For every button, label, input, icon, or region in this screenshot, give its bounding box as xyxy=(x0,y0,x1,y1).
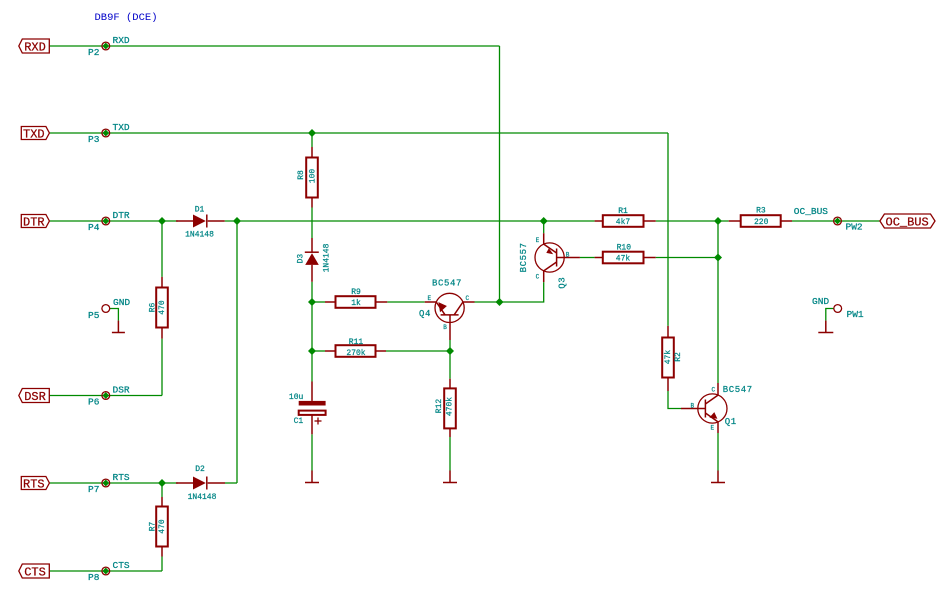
ground R12 xyxy=(443,471,457,483)
wire R10 right to collector riser xyxy=(656,257,718,259)
resistor R7 xyxy=(149,497,168,557)
svg-text:P6: P6 xyxy=(88,397,100,408)
port RXD xyxy=(19,39,50,53)
svg-text:47k: 47k xyxy=(664,350,673,365)
svg-text:47k: 47k xyxy=(616,255,631,264)
svg-text:PW2: PW2 xyxy=(846,222,863,233)
svg-text:B: B xyxy=(566,252,570,259)
svg-text:BC557: BC557 xyxy=(519,242,529,272)
port CTS xyxy=(19,564,50,578)
svg-text:270k: 270k xyxy=(346,349,365,358)
junction R9 row/D3 xyxy=(308,298,316,306)
svg-text:10u: 10u xyxy=(289,393,304,402)
transistor Q4 BC547 xyxy=(419,279,475,341)
junction RTS/R7 xyxy=(158,479,166,487)
svg-text:CTS: CTS xyxy=(113,560,130,571)
svg-text:GND: GND xyxy=(113,297,130,308)
svg-text:D1: D1 xyxy=(195,206,205,215)
svg-text:470: 470 xyxy=(158,300,167,315)
wire CTS horizontal xyxy=(49,570,162,572)
capacitor C1 xyxy=(289,382,326,435)
wire R3 to OC_BUS port xyxy=(792,220,880,222)
port DSR xyxy=(19,389,50,403)
svg-text:220: 220 xyxy=(754,218,769,227)
svg-text:E: E xyxy=(711,425,715,432)
wire R6 top to DTR xyxy=(161,221,163,277)
svg-text:DSR: DSR xyxy=(24,390,46,404)
junction DTR/Q3 emitter xyxy=(540,217,548,225)
svg-text:P4: P4 xyxy=(88,222,100,233)
wire DTR junction down to riser top xyxy=(717,221,719,258)
svg-text:C: C xyxy=(712,386,716,393)
wire R7 bottom to CTS corner xyxy=(161,557,163,572)
svg-text:470k: 470k xyxy=(445,397,454,416)
wire R8 top junction stub xyxy=(311,133,313,147)
junction DTR/R6 xyxy=(158,217,166,225)
pin P5 xyxy=(102,305,110,313)
svg-text:R10: R10 xyxy=(617,243,632,252)
pin P4 xyxy=(102,217,110,225)
pin P6 xyxy=(102,392,110,400)
svg-text:R9: R9 xyxy=(351,288,361,297)
svg-text:BC547: BC547 xyxy=(432,279,462,289)
svg-text:1N4148: 1N4148 xyxy=(322,243,331,272)
svg-text:R1: R1 xyxy=(618,207,628,216)
pin P7 xyxy=(102,479,110,487)
svg-text:D3: D3 xyxy=(296,254,305,264)
wire Q1 emitter to GND xyxy=(717,433,719,471)
diode D1 xyxy=(176,206,225,240)
wire R8 bottom to D3 xyxy=(311,208,313,239)
svg-text:1k: 1k xyxy=(351,299,361,308)
svg-text:E: E xyxy=(536,237,540,244)
ground P5 xyxy=(112,321,125,333)
svg-text:RTS: RTS xyxy=(23,477,45,491)
svg-text:P5: P5 xyxy=(88,310,100,321)
wire R11 right to Q4 base junction xyxy=(386,350,450,352)
wire R11 left stub xyxy=(312,350,325,352)
svg-text:P3: P3 xyxy=(88,134,100,145)
wire DSR vertical to R6 xyxy=(161,339,163,396)
svg-text:D2: D2 xyxy=(195,465,205,474)
resistor R11 xyxy=(325,338,386,358)
wire R2 bottom to Q1 base corner xyxy=(668,391,681,409)
svg-text:P2: P2 xyxy=(88,47,100,58)
wire DSR horizontal xyxy=(49,395,162,397)
svg-text:DTR: DTR xyxy=(23,215,45,229)
resistor R10 xyxy=(595,243,656,263)
wire TXD horizontal xyxy=(49,132,668,134)
ground PW1 xyxy=(818,321,833,333)
svg-text:TXD: TXD xyxy=(23,127,45,141)
junction R11/Q4 base/R12 xyxy=(446,347,454,355)
svg-text:R6: R6 xyxy=(149,303,158,313)
svg-text:OC_BUS: OC_BUS xyxy=(886,215,929,229)
junction TXD/R8 xyxy=(308,129,316,137)
port TXD xyxy=(21,127,49,140)
resistor R3 xyxy=(729,207,792,227)
pin P3 xyxy=(102,129,110,137)
wire D2 cathode to vertical riser xyxy=(225,482,237,484)
svg-text:C: C xyxy=(536,274,540,281)
wire R9 right to Q4 emitter xyxy=(387,301,424,303)
svg-text:GND: GND xyxy=(812,296,829,307)
wire R9 left xyxy=(312,301,325,303)
wire Q3 emitter to DTR xyxy=(543,221,545,233)
svg-text:RXD: RXD xyxy=(113,35,130,46)
resistor R2 xyxy=(662,326,683,391)
wire RTS horizontal xyxy=(49,482,178,484)
wire Q1 collector riser xyxy=(717,258,719,384)
svg-text:C: C xyxy=(466,295,470,302)
wire RXD horizontal xyxy=(49,45,499,47)
pin P2 xyxy=(102,42,110,50)
svg-text:P7: P7 xyxy=(88,484,99,495)
wire Q3 base to R10 xyxy=(580,257,595,259)
svg-text:P8: P8 xyxy=(88,572,100,583)
resistor R8 xyxy=(297,147,318,208)
svg-text:R12: R12 xyxy=(435,399,444,414)
svg-text:DB9F (DCE): DB9F (DCE) xyxy=(95,12,158,24)
svg-text:DSR: DSR xyxy=(113,385,130,396)
svg-text:Q4: Q4 xyxy=(419,309,431,319)
wire DTR R1 to R3 xyxy=(656,220,729,222)
junction DTR/riser xyxy=(233,217,241,225)
svg-text:PW1: PW1 xyxy=(847,309,864,320)
diode D2 xyxy=(176,465,225,502)
junction R10/riser xyxy=(714,254,722,262)
wire RXD vertical xyxy=(499,46,501,302)
svg-text:DTR: DTR xyxy=(113,210,130,221)
wire PW1 to GND xyxy=(826,309,834,321)
resistor R6 xyxy=(149,277,168,339)
wire P5 to GND xyxy=(110,309,119,321)
svg-text:R8: R8 xyxy=(297,170,306,180)
pin PW1 xyxy=(834,305,842,313)
svg-text:B: B xyxy=(443,324,447,331)
resistor R1 xyxy=(595,207,656,227)
port OC_BUS xyxy=(880,214,935,228)
svg-text:BC547: BC547 xyxy=(723,385,753,395)
svg-text:1N4148: 1N4148 xyxy=(185,230,214,239)
wire R12 bottom to GND xyxy=(449,437,451,471)
svg-text:E: E xyxy=(428,295,432,302)
svg-text:Q1: Q1 xyxy=(725,417,737,427)
svg-text:OC_BUS: OC_BUS xyxy=(794,206,829,217)
diode D3 xyxy=(296,238,331,282)
wire RTS junction down to R7 xyxy=(161,483,163,497)
wire D3 anode to R9 row xyxy=(311,282,313,302)
wire C1 bottom to GND xyxy=(311,434,313,470)
junction R11/C1 xyxy=(308,347,316,355)
svg-text:CTS: CTS xyxy=(24,565,46,579)
svg-text:TXD: TXD xyxy=(113,122,130,133)
resistor R12 xyxy=(435,379,456,437)
wire DTR D1 to R1 xyxy=(225,220,595,222)
wire R9 row junction to R11 junction xyxy=(311,302,313,351)
svg-text:R2: R2 xyxy=(674,352,683,362)
wire Q4 collector to Q3 collector xyxy=(475,282,544,302)
pin PW2 xyxy=(834,217,842,225)
wire riser D1/D2 cathodes xyxy=(236,221,238,483)
pin P8 xyxy=(102,567,110,575)
svg-text:R11: R11 xyxy=(349,338,364,347)
wire junction to R12 xyxy=(449,351,451,379)
junction R9 row/RXD riser xyxy=(496,298,504,306)
svg-text:R3: R3 xyxy=(756,207,766,216)
transistor Q1 BC547 xyxy=(681,383,753,433)
svg-text:470: 470 xyxy=(158,519,167,534)
svg-text:100: 100 xyxy=(308,169,317,184)
port RTS xyxy=(21,477,49,490)
svg-text:1N4148: 1N4148 xyxy=(188,493,217,502)
wire R11 junction to C1 xyxy=(311,351,313,382)
svg-text:Q3: Q3 xyxy=(557,277,567,289)
ground C1 xyxy=(305,471,319,483)
port DTR xyxy=(21,215,49,228)
svg-text:B: B xyxy=(691,403,695,410)
junction DTR/Q1 collector riser xyxy=(714,217,722,225)
wire TXD vertical to R2 xyxy=(667,133,669,326)
svg-text:RTS: RTS xyxy=(113,472,130,483)
ground Q1 xyxy=(711,471,725,483)
svg-text:R7: R7 xyxy=(149,522,158,532)
resistor R9 xyxy=(325,288,387,308)
wire Q4 base to junction xyxy=(449,340,451,351)
transistor Q3 BC557 xyxy=(519,233,580,289)
svg-text:RXD: RXD xyxy=(24,40,46,54)
wire DTR port to D1 xyxy=(49,220,178,222)
svg-text:4k7: 4k7 xyxy=(616,218,631,227)
svg-text:C1: C1 xyxy=(294,417,304,426)
